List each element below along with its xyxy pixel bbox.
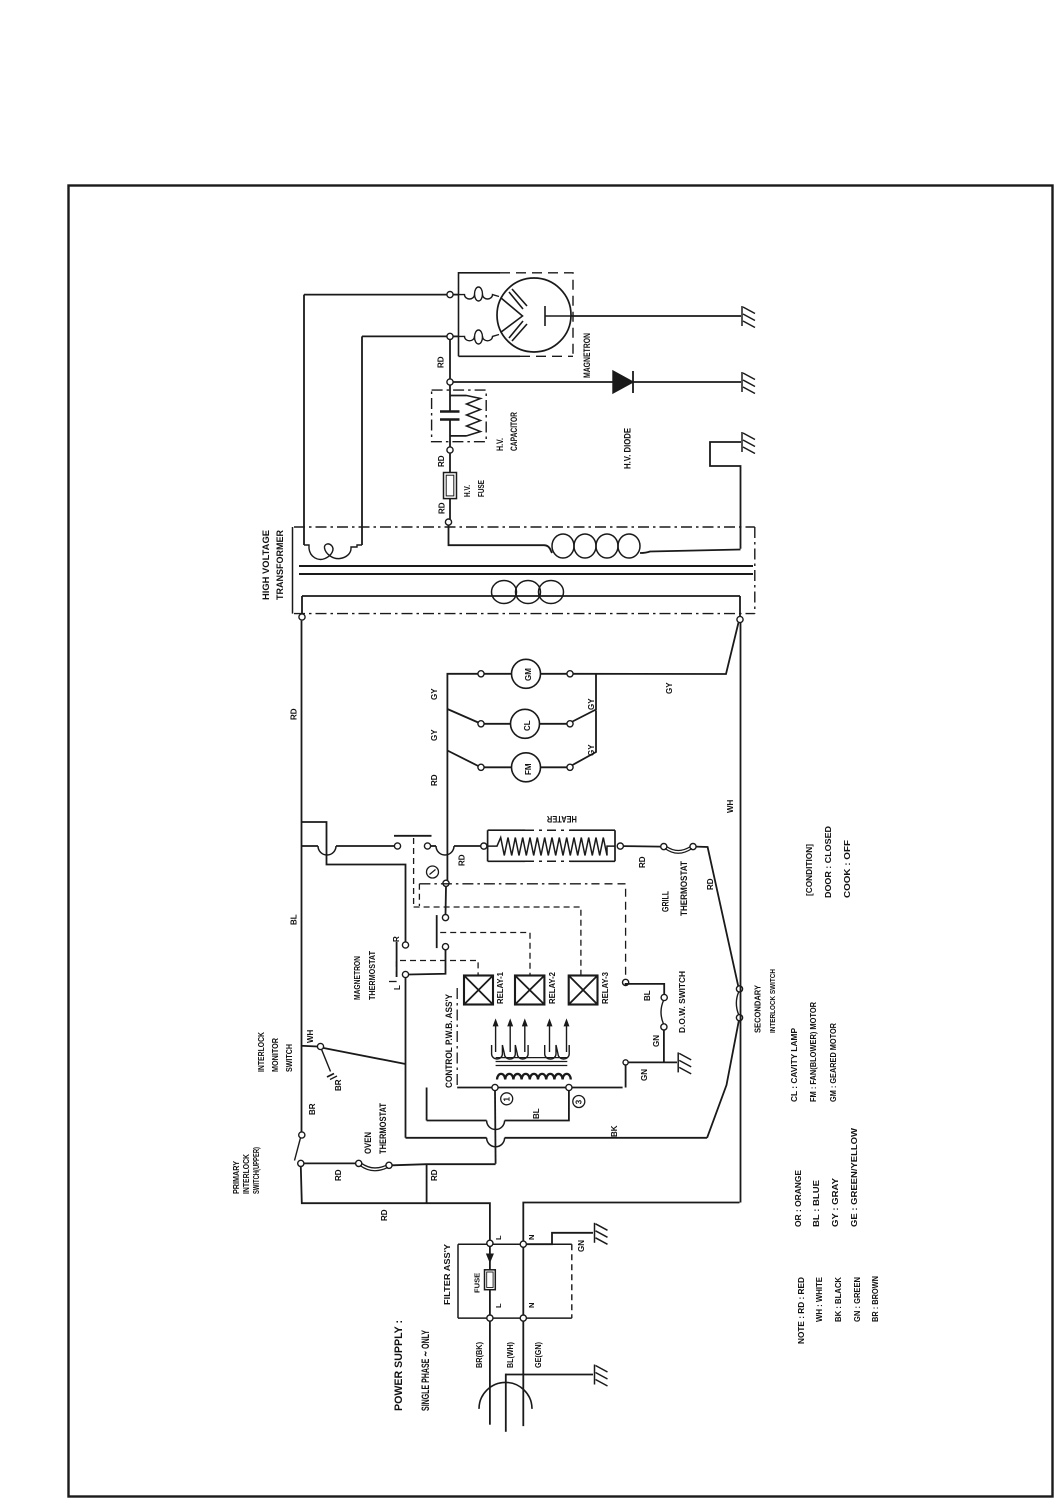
wire filament feed lower [362, 335, 447, 337]
node ground spur [623, 1060, 628, 1065]
wire T1 primary left to node [301, 596, 303, 614]
svg-text:WH : WHITE: WH : WHITE [814, 1277, 824, 1322]
wire terminal-1 drop [494, 1091, 497, 1164]
svg-text:WH: WH [306, 1029, 315, 1043]
filter terminal L top [487, 1240, 493, 1246]
oven thermostat contact left [356, 1160, 362, 1166]
wire WH riser (T1 primary right feed) [740, 623, 742, 1203]
T2 secondary arrows [495, 1022, 497, 1052]
T1 core lines [299, 565, 753, 567]
relay-1 contact bridge bar [394, 835, 432, 837]
svg-text:MAGNETRON: MAGNETRON [582, 333, 592, 378]
wire diode line left segment [453, 381, 613, 383]
wire relay-2 lower to L terminal [409, 950, 446, 975]
T2 core lines [496, 1058, 568, 1066]
secondary interlock contact upper [736, 986, 742, 992]
svg-text:FM : FAN(BLOWER) MOTOR: FM : FAN(BLOWER) MOTOR [808, 1002, 818, 1102]
filter terminal N bottom [520, 1315, 526, 1321]
svg-text:GY : GRAY: GY : GRAY [830, 1178, 840, 1227]
grill thermostat contact left [661, 844, 667, 850]
terminal mark circle [427, 866, 439, 878]
relay-2 contact upper [442, 915, 448, 921]
fan motor FM [567, 764, 573, 770]
wire rail slant to CL [447, 709, 478, 723]
primary interlock contact lower [298, 1160, 304, 1166]
node T1 primary right [737, 616, 743, 622]
bleed resistor R1 zigzag [467, 396, 481, 436]
wire BL rail from T1 primary left down [301, 621, 303, 1043]
PWB boundary dash-dot top [419, 883, 591, 885]
svg-text:RELAY-3: RELAY-3 [601, 971, 610, 1004]
svg-text:GE(GN): GE(GN) [534, 1342, 543, 1368]
wire capacitor lower lead [449, 420, 451, 447]
magnetron thermostat terminal R [402, 942, 408, 948]
svg-text:THERMOSTAT: THERMOSTAT [378, 1103, 388, 1154]
svg-text:BL: BL [290, 914, 299, 925]
T1 secondary winding (4 loops) [552, 534, 640, 558]
svg-text:GY: GY [430, 729, 439, 741]
wire branch to relay-1 contact (wire A) with hop [302, 845, 319, 847]
T2 primary winding bumps [497, 1074, 571, 1080]
svg-text:GM : GEARED MOTOR: GM : GEARED MOTOR [828, 1023, 838, 1102]
magnetron cathode bar and antenna [545, 306, 571, 326]
secondary interlock blade [736, 992, 738, 1015]
svg-text:BR: BR [334, 1079, 343, 1091]
plug earth pin [505, 1374, 507, 1432]
oven thermostat blade (double arc) [360, 1166, 388, 1171]
svg-text:GN: GN [652, 1035, 661, 1047]
geared motor GM [567, 671, 573, 677]
wire H.V. secondary tap down to winding [449, 525, 545, 545]
wire earth to ground [506, 1374, 593, 1376]
svg-text:NOTE : RD : RED: NOTE : RD : RED [796, 1277, 806, 1344]
secondary interlock contact lower [736, 1015, 742, 1021]
svg-text:GE : GREEN/YELLOW: GE : GREEN/YELLOW [849, 1127, 859, 1227]
wire fuse to transformer tap node [449, 499, 451, 519]
ground chassis (T1 secondary) [742, 432, 755, 454]
svg-text:DOOR : CLOSED: DOOR : CLOSED [823, 826, 833, 898]
T1 primary winding line [302, 595, 740, 597]
wire tap B vertical to transformer filament winding [361, 336, 363, 545]
mech link dashed horizontal to relay-3 [414, 907, 581, 976]
relay RELAY-2 coil box [515, 976, 544, 1005]
H.V. diode D1 [613, 371, 633, 393]
wire secondary entry dip [544, 545, 552, 553]
wire junction down to L line [426, 1164, 428, 1203]
svg-text:CL: CL [523, 720, 532, 731]
wire T2 ground spur [626, 1062, 677, 1087]
PWB boundary left stub [418, 884, 420, 906]
svg-text:GN: GN [640, 1069, 649, 1081]
svg-text:POWER SUPPLY :: POWER SUPPLY : [393, 1320, 405, 1411]
svg-text:RD: RD [706, 878, 715, 890]
node interlock monitor [317, 1043, 323, 1049]
svg-text:GN: GN [577, 1240, 586, 1252]
svg-text:H.V.: H.V. [495, 438, 505, 451]
PWB boundary left edge dash-dot [456, 988, 458, 1088]
relay-1 contact right [424, 843, 430, 849]
wire CL right riser to GM line [573, 674, 597, 722]
relay RELAY-1 coil box [464, 976, 493, 1005]
svg-text:THERMOSTAT: THERMOSTAT [367, 950, 377, 1000]
mech link relay-2 (dashed) [440, 933, 530, 976]
wire plug prong L [489, 1321, 491, 1425]
svg-text:L: L [494, 1235, 503, 1240]
ground chassis (mains earth) [595, 1365, 608, 1387]
svg-text:INTERLOCK: INTERLOCK [242, 1154, 251, 1194]
svg-text:R: R [392, 936, 401, 942]
fuse F1 with feed arrow [489, 1246, 491, 1269]
svg-text:GY: GY [430, 688, 439, 700]
svg-text:SWITCH(UPPER): SWITCH(UPPER) [252, 1147, 261, 1194]
svg-text:RD: RD [437, 455, 446, 467]
svg-text:FUSE: FUSE [473, 1273, 482, 1293]
wire monitor node down to primary interlock [301, 1047, 303, 1132]
node PWB terminal (motor rail) [443, 880, 449, 886]
svg-text:OVEN: OVEN [363, 1132, 373, 1154]
heater terminal right [617, 843, 623, 849]
svg-text:RD: RD [334, 1169, 343, 1181]
svg-text:RD: RD [438, 502, 447, 514]
plug dome [479, 1382, 532, 1409]
svg-text:BK : BLACK: BK : BLACK [833, 1276, 843, 1322]
wire L line to filter [301, 1167, 490, 1241]
svg-text:SINGLE PHASE ∼ ONLY: SINGLE PHASE ∼ ONLY [420, 1330, 432, 1411]
svg-text:THERMOSTAT: THERMOSTAT [679, 861, 689, 916]
svg-text:CAPACITOR: CAPACITOR [509, 412, 519, 451]
wire T1 secondary ground step [710, 442, 741, 549]
svg-text:INTERLOCK: INTERLOCK [256, 1031, 266, 1072]
node diode junction [447, 379, 453, 385]
T1 primary winding loops [492, 581, 564, 604]
wire motor left rail [447, 674, 478, 880]
svg-text:BR: BR [308, 1103, 317, 1115]
ground chassis (filter GN) [595, 1223, 608, 1245]
svg-text:D.O.W. SWITCH: D.O.W. SWITCH [677, 971, 687, 1033]
svg-text:TRANSFORMER: TRANSFORMER [275, 530, 285, 600]
T1 filament winding [304, 544, 362, 560]
node H.V. secondary tap [445, 519, 451, 525]
svg-text:1: 1 [503, 1097, 512, 1102]
mech link relay-1 bar down (dashed) [413, 838, 415, 907]
wire tap A vertical to transformer filament winding [303, 295, 305, 545]
wire PWB terminal down to relay-2 contact [445, 886, 448, 914]
node T2 primary tap 1 [492, 1084, 498, 1090]
ground chassis (magnetron antenna) [742, 306, 755, 328]
wire into capacitor box [449, 385, 451, 411]
svg-text:GRILL: GRILL [661, 891, 671, 912]
terminal circled 1 [501, 1093, 513, 1105]
relay RELAY-3 coil box [569, 976, 598, 1005]
primary interlock contact upper [299, 1132, 305, 1138]
filter terminal N top [520, 1241, 526, 1247]
magnetron thermostat blade bar [396, 942, 398, 977]
heater element box [488, 830, 615, 861]
magnetron U1 enclosure [459, 273, 501, 357]
magnetron filament choke lower [459, 335, 500, 341]
svg-text:GY: GY [587, 744, 596, 756]
wire rail slant to FM [447, 751, 478, 767]
wire capacitor node to fuse [449, 453, 451, 472]
svg-text:BR(BK): BR(BK) [475, 1342, 484, 1368]
svg-text:BL : BLUE: BL : BLUE [811, 1180, 821, 1227]
magnetron filament terminal upper [447, 292, 453, 298]
H.V. capacitor C1 dash-dot box [432, 390, 487, 442]
node T1 primary left [299, 614, 305, 620]
wire branch B rail to R terminal [302, 822, 406, 942]
wire FM right riser to CL line [573, 711, 597, 766]
relay-1 contact left [394, 843, 400, 849]
D.O.W. switch blade [661, 1001, 664, 1025]
svg-text:CL : CAVITY LAMP: CL : CAVITY LAMP [789, 1028, 799, 1102]
wire PWB right terminal to D.O.W. switch [626, 984, 665, 995]
wire plug prong N [522, 1321, 524, 1426]
svg-text:L: L [494, 1303, 503, 1308]
svg-text:MONITOR: MONITOR [270, 1038, 280, 1072]
wire secondary interlock lower to BK return slant [707, 1021, 739, 1138]
heater terminal left [481, 843, 487, 849]
mech link thermostat to relay-1 (dashed) [397, 961, 479, 978]
D.O.W. switch contact upper [661, 994, 667, 1000]
svg-text:BR : BROWN: BR : BROWN [870, 1276, 880, 1322]
wire monitor long slant to heater return [324, 1048, 406, 1064]
svg-text:RD: RD [437, 356, 446, 368]
terminal circled 3 [573, 1096, 585, 1108]
wire heater feed with hop over motor-rail drop [431, 845, 436, 847]
relay-2 blade bar [436, 915, 438, 948]
heater zigzag element [488, 838, 615, 856]
svg-text:RD: RD [290, 708, 299, 720]
svg-text:RD: RD [430, 774, 439, 786]
svg-text:SECONDARY: SECONDARY [753, 985, 763, 1033]
cavity lamp CL [567, 721, 573, 727]
svg-text:BK: BK [610, 1125, 619, 1137]
wire magnetron antenna to ground [571, 315, 741, 317]
wire oven thermostat to junction [392, 1164, 496, 1165]
svg-text:INTERLOCK SWITCH: INTERLOCK SWITCH [768, 969, 777, 1033]
LV transformer T2 secondary windings with arrows [492, 1045, 529, 1059]
svg-text:RD: RD [638, 856, 647, 868]
capacitor C1 plates [440, 410, 460, 413]
node below capacitor [447, 447, 453, 453]
wire RD magnetron cathode down to diode node [449, 340, 451, 379]
primary interlock blade [295, 1138, 301, 1161]
svg-text:RD: RD [430, 1169, 439, 1181]
svg-text:RD: RD [380, 1209, 389, 1221]
svg-text:FM: FM [524, 763, 533, 775]
wire T1 primary right to node [739, 596, 741, 617]
wire L terminal down to BK return line [405, 978, 407, 1138]
svg-text:RD: RD [458, 854, 467, 866]
wire N line from filter to WH riser [523, 1203, 739, 1242]
svg-text:PRIMARY: PRIMARY [232, 1160, 241, 1194]
svg-text:CONTROL P.W.B. ASS'Y: CONTROL P.W.B. ASS'Y [444, 994, 454, 1088]
svg-text:BL(WH): BL(WH) [506, 1342, 515, 1368]
svg-text:WH: WH [726, 799, 735, 813]
svg-text:COOK : OFF: COOK : OFF [842, 840, 852, 898]
wire heater right to grill thermostat [623, 845, 660, 848]
svg-text:3: 3 [575, 1099, 584, 1104]
wire grill thermostat to secondary interlock slant [696, 847, 738, 986]
wire BK return line with hop [406, 1137, 487, 1139]
high voltage transformer T1 dash-dot box [294, 526, 755, 528]
interlock monitor blade with contact tip [322, 1049, 331, 1071]
bleed resistor R1 taps [450, 395, 467, 397]
wire N-top ground jog [526, 1233, 593, 1244]
filter terminal L bottom [487, 1315, 493, 1321]
node T2 primary tap 3 [566, 1084, 572, 1090]
wire secondary right end [640, 550, 741, 554]
svg-text:GN : GREEN: GN : GREEN [852, 1277, 862, 1322]
wire diode line right segment to ground [633, 381, 741, 383]
svg-text:SWITCH: SWITCH [284, 1044, 294, 1072]
svg-text:GY: GY [587, 698, 596, 710]
svg-text:GY: GY [665, 682, 674, 694]
svg-text:H.V.: H.V. [462, 485, 472, 497]
svg-text:H.V. DIODE: H.V. DIODE [623, 428, 633, 469]
magnetron tube circle [497, 278, 571, 352]
H.V. fuse F2 body [444, 473, 457, 499]
ground chassis (D.O.W./T2) [678, 1052, 691, 1074]
wire D.O.W. lower to ground line [663, 1030, 665, 1062]
svg-text:RELAY-2: RELAY-2 [548, 971, 557, 1004]
wire T2 primary feed [457, 1087, 622, 1089]
node PWB terminal right [623, 979, 629, 985]
magnetron thermostat terminal L [402, 971, 408, 977]
svg-text:HEATER: HEATER [547, 813, 577, 824]
svg-text:GM: GM [524, 668, 533, 681]
svg-text:[CONDITION]: [CONDITION] [804, 844, 814, 896]
svg-text:BL: BL [643, 990, 652, 1001]
magnetron anode vanes [501, 289, 528, 341]
wire BL rail to monitor node [302, 1043, 318, 1047]
wire terminal-3 channel with hop [426, 1088, 428, 1121]
wire interlock lower to oven thermostat [304, 1162, 356, 1164]
wire GM feed from T1 primary right [573, 623, 738, 675]
svg-text:BL: BL [532, 1108, 541, 1119]
filter assy box [458, 1244, 572, 1318]
grill thermostat blade (double arc) [665, 849, 692, 854]
relay-2 contact lower [442, 944, 448, 950]
magnetron filament terminal lower [447, 333, 453, 339]
svg-text:RELAY-1: RELAY-1 [496, 971, 505, 1004]
svg-text:OR : ORANGE: OR : ORANGE [793, 1170, 803, 1227]
ground chassis (H.V. diode) [742, 372, 755, 394]
wire N inside filter [522, 1247, 524, 1315]
svg-text:HIGH VOLTAGE: HIGH VOLTAGE [261, 530, 271, 600]
oven thermostat contact right [386, 1162, 392, 1168]
svg-text:FILTER ASS'Y: FILTER ASS'Y [442, 1244, 452, 1305]
magnetron filament choke upper [459, 295, 500, 299]
svg-text:N: N [527, 1303, 536, 1308]
grill thermostat contact right [690, 844, 696, 850]
svg-text:FUSE: FUSE [476, 480, 486, 497]
wire filament feed upper (from transformer tap) [304, 294, 447, 296]
svg-text:MAGNETRON: MAGNETRON [352, 956, 362, 1000]
svg-text:L: L [393, 985, 402, 990]
D.O.W. switch contact lower [661, 1024, 667, 1030]
svg-text:N: N [527, 1235, 536, 1240]
